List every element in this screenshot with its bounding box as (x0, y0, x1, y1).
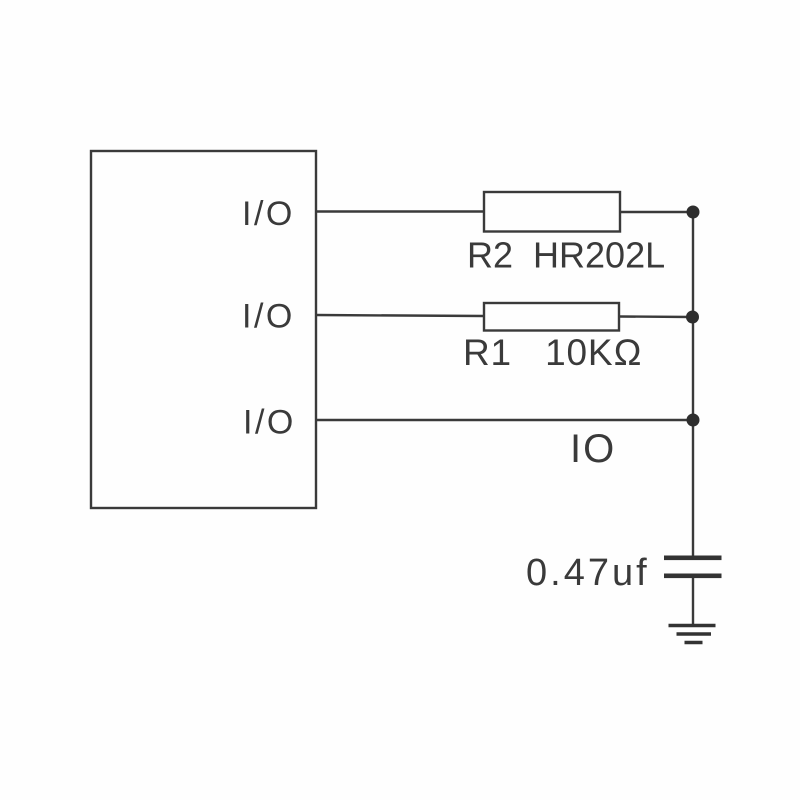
vertical bus wire (692, 212, 694, 556)
svg-text:0.47uf: 0.47uf (526, 552, 650, 594)
wire R2 to node A (620, 211, 693, 213)
svg-text:R1 10KΩ: R1 10KΩ (463, 332, 643, 373)
capacitor C1 plate bottom (664, 574, 722, 579)
resistor R1 (484, 303, 619, 331)
IC box U1 (91, 151, 316, 508)
wire pin2 to R1 (316, 315, 484, 316)
junction node B (686, 311, 699, 324)
svg-text:I/O: I/O (242, 298, 295, 336)
svg-text:IO: IO (570, 427, 616, 471)
wire pin3 IO net (316, 419, 693, 421)
wire pin1 to R2 (316, 210, 484, 212)
junction node C (687, 414, 700, 427)
junction node A (687, 206, 700, 219)
resistor R2 (484, 192, 620, 232)
svg-text:R2 HR202L: R2 HR202L (467, 235, 665, 276)
wire capacitor to ground (692, 577, 694, 626)
wire R1 to node B (619, 315, 692, 318)
ground symbol (669, 626, 716, 643)
svg-text:I/O: I/O (243, 404, 296, 442)
capacitor C1 plate top (664, 556, 722, 561)
svg-text:I/O: I/O (242, 195, 295, 233)
